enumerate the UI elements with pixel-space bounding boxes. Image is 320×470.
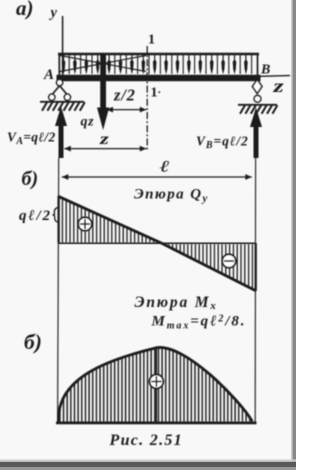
svg-text:Эпюра Мх: Эпюра Мх <box>135 294 218 312</box>
svg-text:Мmax=qℓ2/8.: Мmax=qℓ2/8. <box>151 314 247 332</box>
svg-text:Рис. 2.51: Рис. 2.51 <box>109 432 183 449</box>
svg-text:B: B <box>260 63 270 78</box>
svg-text:z: z <box>99 131 109 148</box>
svg-text:A: A <box>43 67 54 83</box>
svg-text:y: y <box>49 5 58 21</box>
svg-text:ℓ: ℓ <box>160 158 171 175</box>
svg-text:z/2: z/2 <box>113 86 136 105</box>
svg-text:б): б) <box>24 330 42 354</box>
svg-text:VB=qℓ/2: VB=qℓ/2 <box>196 134 249 152</box>
svg-text:а): а) <box>16 0 34 20</box>
svg-text:qℓ/2: qℓ/2 <box>19 208 52 224</box>
svg-text:1·: 1· <box>151 86 162 101</box>
svg-text:Эпюра Qy: Эпюра Qy <box>134 187 209 205</box>
svg-text:qz: qz <box>81 115 95 130</box>
svg-text:б): б) <box>22 168 39 190</box>
svg-text:VA=qℓ/2: VA=qℓ/2 <box>7 130 56 148</box>
svg-text:1: 1 <box>148 33 155 48</box>
svg-text:z: z <box>272 76 284 96</box>
